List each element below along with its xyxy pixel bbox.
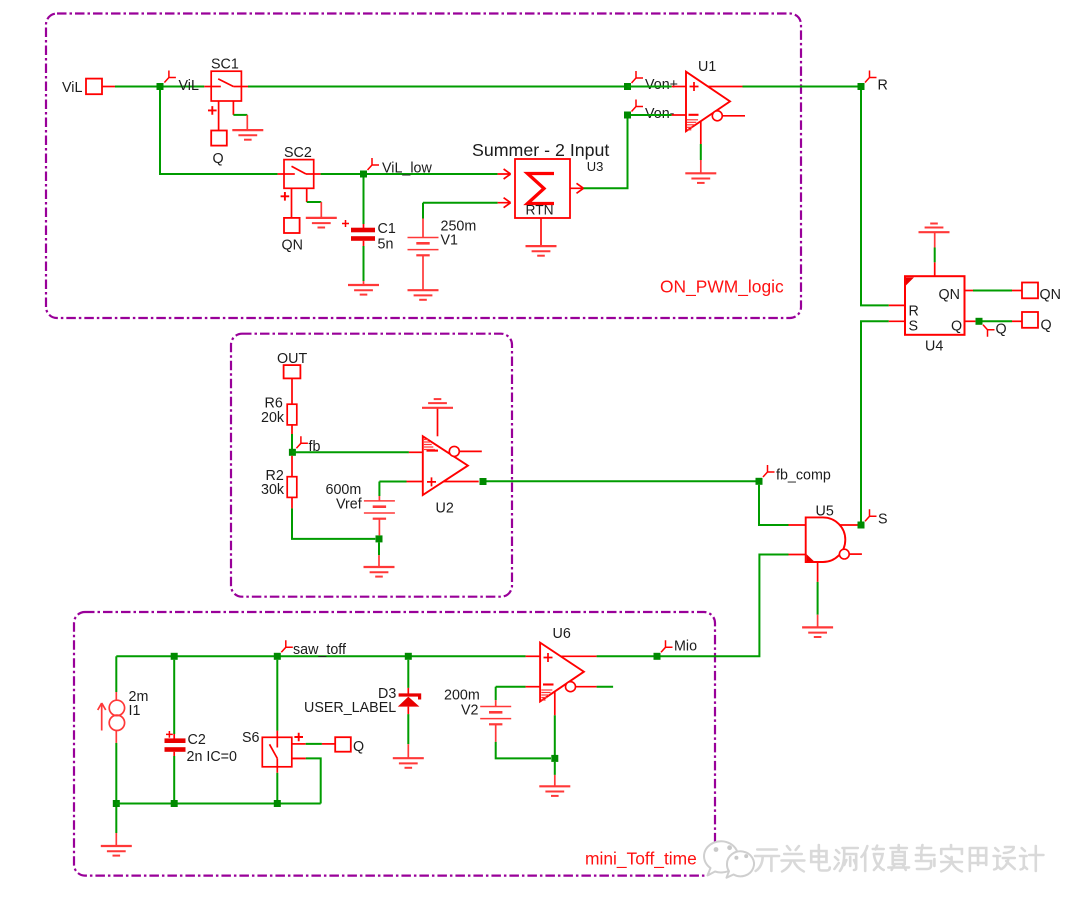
svg-text:QN: QN	[1040, 287, 1061, 303]
ground Vref	[364, 567, 395, 577]
svg-text:Mio: Mio	[674, 639, 697, 655]
voltage source V2 200m	[495, 687, 497, 700]
ground U6	[539, 786, 570, 796]
switch S6	[262, 737, 305, 767]
dashed group box mini_Toff_time	[74, 612, 715, 876]
power ground above U2	[422, 399, 453, 408]
switch SC1	[211, 71, 241, 130]
wire ViL_low to C1	[363, 178, 365, 225]
svg-text:fb_comp: fb_comp	[776, 468, 831, 484]
wire V1 to summer input 2	[423, 202, 498, 204]
svg-text:S: S	[909, 318, 919, 334]
wire rail to U6 plus	[526, 655, 541, 657]
voltage source Vref 600m	[378, 482, 380, 497]
wire SC2 to ground	[307, 201, 322, 203]
svg-text:ON_PWM_logic: ON_PWM_logic	[660, 277, 784, 297]
wire SC2 to summer input 1	[314, 173, 321, 175]
svg-text:Q: Q	[996, 322, 1007, 338]
svg-text:U2: U2	[436, 501, 454, 517]
port Q of S6	[335, 737, 351, 752]
wire S6 lower pin to bottom rail	[306, 758, 321, 803]
svg-text:U4: U4	[925, 339, 943, 355]
svg-text:QN: QN	[939, 287, 960, 303]
ground V1	[408, 290, 439, 300]
svg-text:U1: U1	[698, 59, 716, 75]
svg-text:Von+: Von+	[645, 77, 678, 93]
svg-text:SC2: SC2	[284, 145, 312, 161]
current source I1 2m	[115, 656, 117, 692]
svg-text:C1: C1	[378, 221, 396, 237]
junction U2 output	[480, 478, 487, 485]
wire saw_toff top rail	[116, 655, 525, 657]
junction node fb	[289, 449, 296, 456]
wire S6 bottom pin	[276, 767, 278, 773]
svg-text:20k: 20k	[261, 410, 285, 426]
svg-text:200m: 200m	[444, 688, 480, 704]
junction C2 top	[171, 653, 178, 660]
ground U5	[802, 627, 833, 637]
port Q of SC1	[211, 131, 227, 146]
svg-text:ViL: ViL	[62, 80, 82, 96]
watermark chinese text	[755, 845, 1043, 872]
wire SC1 to Von+	[241, 86, 248, 88]
wire U1 output to node R	[743, 86, 862, 88]
port QN of SC2	[284, 218, 300, 233]
stub U6 inverted output	[597, 686, 614, 688]
wire SC1 to ground	[233, 114, 247, 116]
wire U6 output to node Mio	[597, 655, 657, 657]
junction node Mio	[654, 653, 661, 660]
wire R6 to fb	[291, 425, 293, 434]
ground I1	[101, 846, 132, 856]
flip-flop U4	[905, 262, 975, 335]
wire Mio to U5 input 2	[661, 555, 789, 657]
wire U5 bottom to ground	[817, 562, 819, 582]
wire R2 to Vref bottom junction	[291, 497, 293, 508]
junction C2 bottom	[171, 800, 178, 807]
wire summer output to Von-	[584, 115, 628, 188]
wire S6 to port Q	[306, 743, 322, 745]
wire U2 top pin to power rail	[437, 408, 439, 437]
svg-text:SC1: SC1	[211, 57, 239, 73]
wire R down to U4 R pin	[861, 90, 889, 305]
svg-text:RTN: RTN	[526, 203, 554, 218]
wire Vref junction to ground	[378, 542, 380, 555]
svg-text:600m: 600m	[326, 482, 362, 498]
junction node saw_toff	[274, 653, 281, 660]
svg-text:R: R	[909, 304, 919, 320]
svg-text:Q: Q	[353, 739, 364, 755]
wire U2 output to fb_comp	[487, 480, 760, 482]
svg-text:5n: 5n	[378, 237, 394, 253]
svg-text:V1: V1	[441, 233, 459, 249]
ground C1	[348, 285, 379, 295]
capacitor C1	[363, 224, 365, 228]
wire OUT to R6	[291, 378, 293, 404]
svg-text:I1: I1	[129, 703, 141, 719]
junction node fb_comp	[756, 478, 763, 485]
svg-text:Q: Q	[1041, 318, 1052, 334]
wire ViL port to SC1	[102, 86, 115, 88]
wire V2 to U6 minus	[496, 686, 526, 688]
junction node S	[858, 522, 865, 529]
junction D3 top	[405, 653, 412, 660]
wire U4 top to power	[934, 248, 936, 263]
wire fb to U2 minus	[292, 451, 409, 453]
wire C1 to ground	[363, 241, 365, 246]
junction node R	[858, 83, 865, 90]
svg-text:ViL_low: ViL_low	[382, 161, 432, 177]
wire U6 bottom pin to junction and ground	[554, 691, 556, 715]
svg-text:Summer - 2 Input: Summer - 2 Input	[472, 140, 609, 160]
voltage source V1	[422, 203, 424, 219]
junction below Vref	[376, 535, 383, 542]
plus mark SC2	[281, 192, 290, 201]
junction node Von-	[624, 112, 631, 119]
dashed group box feedback divider	[231, 334, 512, 597]
junction bottom rail at I1	[113, 800, 120, 807]
plus mark S6	[294, 733, 303, 742]
wire QN to port	[973, 290, 1012, 292]
junction S6 bottom	[274, 800, 281, 807]
svg-text:U6: U6	[553, 626, 571, 642]
junction node ViL	[157, 83, 164, 90]
svg-text:S: S	[878, 512, 888, 528]
wire U1 bottom pin to ground	[700, 121, 702, 144]
resistor R2 30k	[287, 477, 297, 498]
wire S up to U4 S pin	[861, 321, 889, 521]
capacitor C2	[173, 660, 175, 734]
port Q	[1022, 312, 1038, 328]
port QN	[1022, 283, 1038, 299]
ground SC2	[306, 218, 337, 228]
wire bottom rail	[116, 803, 320, 805]
resistor R6 20k	[287, 404, 297, 425]
svg-text:USER_LABEL: USER_LABEL	[304, 700, 396, 716]
wire saw_toff down to S6	[276, 660, 278, 731]
svg-text:QN: QN	[282, 238, 303, 254]
plus mark SC1	[208, 106, 217, 115]
svg-text:U3: U3	[587, 159, 604, 174]
ground U3 RTN	[526, 246, 557, 256]
hysteresis mark U1	[687, 120, 698, 130]
hysteresis mark U2	[424, 440, 435, 450]
ground U1	[685, 173, 716, 183]
wire fb_comp to U5 input 1	[759, 485, 789, 525]
svg-text:30k: 30k	[261, 482, 285, 498]
wire fb to R2	[291, 456, 293, 477]
wire ViL down to SC2	[160, 90, 278, 174]
wire I1 junction to ground	[115, 807, 117, 833]
switch SC2	[284, 160, 314, 218]
hysteresis mark U6	[541, 690, 552, 700]
dashed group box ON_PWM_logic	[46, 14, 801, 319]
wire Q to port	[983, 320, 1013, 322]
svg-text:mini_Toff_time: mini_Toff_time	[585, 849, 697, 869]
svg-text:S6: S6	[242, 730, 260, 746]
junction node Von+	[624, 83, 631, 90]
wire Von+ to U1 plus	[628, 86, 672, 88]
junction node ViL_low	[360, 171, 367, 178]
svg-text:ViL: ViL	[179, 78, 199, 94]
svg-text:Q: Q	[213, 151, 224, 167]
svg-text:V2: V2	[461, 703, 479, 719]
svg-text:Vref: Vref	[336, 497, 362, 513]
svg-text:saw_toff: saw_toff	[293, 642, 346, 658]
svg-text:Q: Q	[951, 319, 962, 335]
ground SC1	[232, 130, 263, 140]
svg-text:2n IC=0: 2n IC=0	[187, 749, 238, 765]
ground D3	[393, 758, 424, 768]
diode D3 zener	[407, 660, 409, 688]
wire Vref to U2 plus	[379, 481, 406, 483]
svg-text:C2: C2	[188, 732, 206, 748]
svg-text:R: R	[878, 78, 888, 94]
wire Von- to U1 minus	[631, 114, 672, 116]
power ground above U4	[919, 224, 950, 233]
junction node Q	[976, 318, 983, 325]
watermark wechat logo	[704, 841, 754, 877]
